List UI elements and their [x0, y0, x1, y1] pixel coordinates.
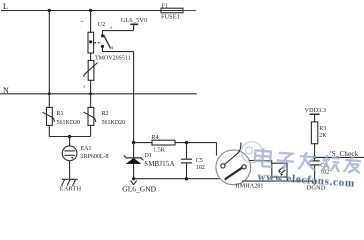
svg-text:1: 1	[83, 84, 85, 89]
relay contact switch pins 3-4	[101, 25, 134, 52]
junction on L at x=91	[89, 9, 92, 12]
optocoupler U3 HMHA281 body	[216, 143, 251, 185]
svg-text:TMOV20S511: TMOV20S511	[95, 55, 131, 61]
svg-text:GL6_GND: GL6_GND	[122, 184, 156, 193]
svg-text:R2: R2	[102, 111, 109, 117]
junction at R4 node	[132, 141, 135, 144]
ground DGND	[307, 181, 326, 192]
fuse F1	[161, 3, 183, 20]
thin lever with curled tip	[225, 143, 241, 165]
svg-text:EARTH: EARTH	[60, 187, 82, 193]
svg-text:VDD3.3: VDD3.3	[305, 107, 327, 114]
svg-text:U2: U2	[98, 22, 105, 28]
svg-text:561KD20: 561KD20	[102, 120, 126, 126]
svg-text:1.5K: 1.5K	[153, 147, 166, 153]
wire S_Check	[315, 156, 364, 158]
junction at C5	[185, 141, 188, 144]
svg-text:HMHA281: HMHA281	[235, 183, 263, 190]
char zi	[276, 153, 294, 169]
wire after fuse	[183, 10, 196, 12]
wire L line	[1, 10, 161, 12]
LED box of optocoupler	[272, 163, 287, 177]
svg-text:SMBJ15A: SMBJ15A	[144, 161, 174, 168]
junction S_Check	[313, 156, 316, 159]
svg-text:C5: C5	[196, 158, 203, 164]
junction on N at x=49	[48, 92, 51, 95]
svg-text:2RP600L-8: 2RP600L-8	[81, 154, 109, 160]
junction D1 bottom	[132, 177, 135, 180]
capacitor C6 102	[309, 161, 329, 181]
power port GL6_5V0	[121, 17, 148, 30]
svg-text:102: 102	[196, 165, 205, 171]
svg-text:561KD20: 561KD20	[57, 120, 81, 126]
wire stem to EA1	[69, 137, 71, 146]
svg-text:D1: D1	[145, 153, 152, 159]
junction mid	[68, 135, 71, 138]
terminal right	[242, 165, 246, 169]
junction on L at x=49	[48, 9, 51, 12]
svg-text:FUSE1: FUSE1	[161, 13, 180, 20]
gas discharge tube EA1 2RP600L-8	[62, 146, 108, 161]
varistor TMOV20S511	[83, 55, 131, 89]
char dian	[254, 147, 272, 167]
wire down to optocoupler	[216, 143, 218, 156]
power port VDD3.3	[305, 107, 327, 122]
wire TMOV to N	[90, 80, 92, 94]
earth ground	[60, 179, 82, 192]
wire vertical from L to R1	[48, 11, 50, 108]
wire GND rail	[134, 178, 220, 180]
junction C5 bottom	[185, 177, 188, 180]
wire bottom rail to DGND column	[242, 180, 315, 182]
resistor R3 2K	[311, 122, 327, 144]
svg-text:L: L	[3, 2, 8, 11]
svg-text:2K: 2K	[319, 133, 327, 139]
dashed mechanical link	[94, 42, 101, 44]
char you	[344, 156, 361, 174]
wire N line	[0, 93, 197, 95]
svg-text:R1: R1	[57, 111, 64, 117]
TVS diode D1 SMBJ15A	[124, 143, 175, 179]
resistor R4 1.5K	[134, 135, 217, 153]
svg-text:GL6_5V0: GL6_5V0	[121, 17, 148, 24]
capacitor C5 102	[181, 143, 205, 179]
junction on N at x=91	[89, 92, 92, 95]
varistor R2 561KD20	[84, 94, 125, 137]
svg-text:R3: R3	[319, 126, 326, 132]
wire R1 bottom	[48, 125, 50, 136]
terminal left	[221, 164, 225, 168]
char shao	[322, 155, 340, 172]
char fa	[298, 152, 316, 171]
ground GL6_GND	[122, 180, 156, 193]
logo circle	[241, 141, 263, 163]
wire R3 to node	[314, 144, 316, 161]
watermark	[239, 141, 362, 190]
svg-text:R4: R4	[152, 135, 159, 141]
wire vertical from L to relay coil	[90, 11, 92, 33]
wire EA1 to earth	[69, 161, 71, 180]
thick lever	[225, 168, 243, 180]
wire box to bottom rail	[286, 177, 288, 181]
wire circle to LED box	[249, 161, 272, 164]
wire joining R1 R2	[49, 136, 90, 138]
varistor R1 561KD20	[43, 107, 81, 126]
wire coil to TMOV	[90, 53, 92, 61]
wire switch to R4 node	[133, 52, 135, 143]
svg-text:EA1: EA1	[81, 146, 92, 152]
relay coil U2	[81, 21, 106, 53]
svg-text:F1: F1	[162, 3, 168, 9]
